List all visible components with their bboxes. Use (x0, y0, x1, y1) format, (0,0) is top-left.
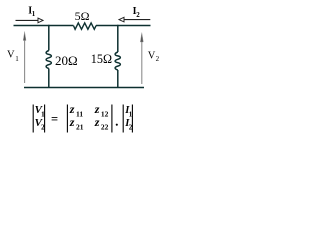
svg-text:z: z (94, 115, 100, 129)
voltage arrow V1 (24, 38, 26, 83)
bar left of I vector (122, 105, 124, 133)
wire left shunt lower (48, 69, 50, 89)
svg-text:z: z (69, 115, 75, 129)
wire bottom (24, 87, 144, 89)
svg-text:2: 2 (136, 11, 140, 19)
wire right shunt upper (117, 25, 119, 52)
wire right shunt lower (117, 70, 119, 88)
svg-text:1: 1 (32, 10, 36, 18)
current arrow I1 (16, 19, 39, 21)
bar right of I vector (131, 105, 133, 133)
bar right of z matrix (111, 105, 113, 133)
wire left shunt upper (48, 25, 50, 51)
svg-text:22: 22 (101, 122, 109, 131)
svg-text:5Ω: 5Ω (75, 9, 90, 23)
svg-text:V: V (148, 51, 156, 62)
resistor R1 5ohm zigzag (74, 23, 97, 29)
svg-text:15Ω: 15Ω (91, 52, 112, 66)
svg-text:=: = (51, 112, 58, 126)
multiplication dot (116, 124, 118, 126)
svg-text:12: 12 (101, 110, 109, 119)
bar right of V vector (44, 105, 46, 133)
bar left of V vector (32, 105, 34, 133)
svg-text:2: 2 (156, 55, 160, 63)
svg-text:21: 21 (76, 122, 84, 131)
svg-text:11: 11 (76, 110, 83, 119)
resistor R2 20ohm squiggle (46, 51, 51, 69)
voltage arrow V2 (141, 40, 143, 84)
wire top-left segment (14, 25, 74, 27)
resistor R3 15ohm squiggle (115, 52, 120, 70)
svg-text:1: 1 (15, 55, 19, 63)
current arrow I2 (124, 19, 150, 21)
svg-text:20Ω: 20Ω (55, 53, 78, 68)
svg-text:V: V (7, 50, 15, 61)
wire top-right segment (96, 25, 151, 27)
bar left of z matrix (66, 105, 68, 133)
